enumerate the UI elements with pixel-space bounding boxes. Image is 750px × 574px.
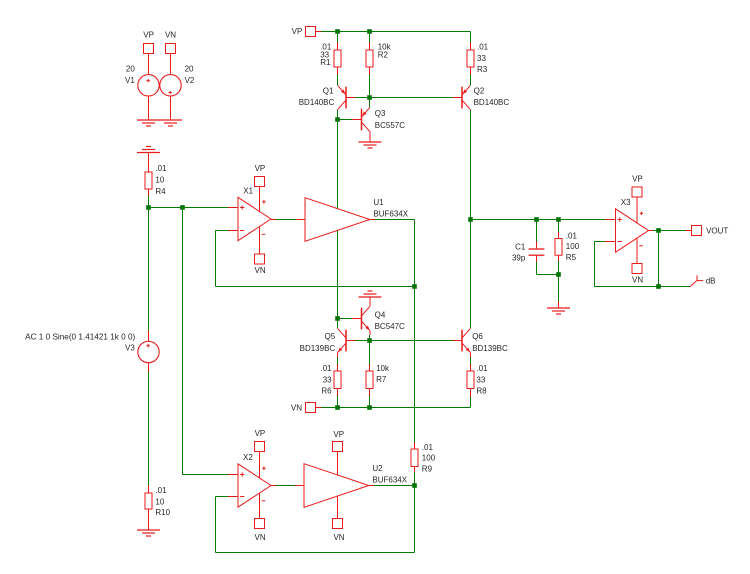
svg-text:X1: X1 (243, 187, 253, 196)
junction U1 out feedback (412, 284, 417, 289)
wire Q4 emitter to node (369, 331, 371, 335)
wire Q6 emitter green (470, 357, 472, 364)
wire R1 bottom pin (337, 67, 339, 74)
wire X2+ pin (228, 474, 238, 476)
svg-text:BUF634X: BUF634X (373, 209, 408, 218)
svg-text:.01: .01 (422, 443, 434, 452)
svg-text:VOUT: VOUT (706, 227, 728, 236)
wire R7 to VN rail (369, 396, 371, 408)
svg-text:Q4: Q4 (375, 310, 386, 319)
buffer U2 BUF634X (304, 464, 408, 508)
wire node to X2+ (183, 208, 229, 475)
wire R9 to U2 out (414, 472, 416, 486)
wire Q5 emitter to R6 (337, 353, 339, 357)
wire top rail (321, 32, 471, 43)
svg-text:BC547C: BC547C (375, 322, 405, 331)
svg-text:R6: R6 (321, 387, 332, 396)
port VN supply top-left (165, 30, 176, 53)
svg-text:dB: dB (706, 277, 716, 286)
resistor R9 .01 100 (411, 443, 436, 474)
resistor R6 .01 33 (320, 364, 341, 395)
svg-text:VP: VP (255, 164, 266, 173)
wire C1 top pin (536, 242, 538, 249)
svg-text:.01: .01 (155, 486, 167, 495)
pin U2 VP (333, 430, 345, 451)
port VP top rail (292, 27, 316, 37)
svg-text:.01: .01 (476, 364, 488, 373)
svg-text:10: 10 (155, 175, 164, 184)
svg-text:VN: VN (255, 266, 266, 275)
wire U2 VP stub (337, 452, 339, 475)
ground above R4 (137, 147, 160, 153)
wire Q3 emitter to node (369, 98, 371, 108)
wire R5 bottom pin (558, 255, 560, 261)
wire Q3 base (338, 119, 353, 121)
op-amp X1 VP pin (255, 164, 266, 186)
wire R2 top (369, 32, 371, 43)
wire R1 to Q1 (337, 74, 339, 85)
svg-text:R1: R1 (320, 58, 331, 67)
svg-text:20: 20 (126, 65, 135, 74)
wire ground to Q4 collector (369, 297, 371, 306)
svg-text:R8: R8 (476, 387, 487, 396)
wire R3 bottom pin (470, 67, 472, 74)
wire V2 to ground (170, 96, 172, 120)
svg-text:R3: R3 (477, 65, 488, 74)
wire R2 top pin (369, 42, 371, 50)
resistor R10 .01 10 (145, 486, 171, 517)
svg-text:Q2: Q2 (474, 86, 485, 95)
wire input row to X1+ (149, 207, 229, 209)
wire C1 bottom (537, 262, 559, 275)
junction C1 R5 bottom (556, 272, 561, 277)
svg-text:100: 100 (422, 454, 436, 463)
wire Q1 base to node (356, 97, 370, 99)
wire V3 bottom pin (148, 363, 150, 372)
wire V1 to ground (148, 96, 150, 120)
ground below V2 (159, 120, 182, 126)
wire U1 in pin (296, 219, 305, 221)
svg-text:R10: R10 (155, 508, 170, 517)
wire X3 out pin (649, 230, 654, 232)
transistor Q2 BD140BC (453, 85, 510, 109)
op-amp X3 triangle (616, 197, 649, 264)
svg-text:VP: VP (333, 430, 344, 439)
wire VP to V1 (148, 54, 150, 75)
wire Q3 collector to ground (369, 132, 371, 142)
wire X3 out (653, 230, 686, 232)
svg-text:10: 10 (155, 497, 164, 506)
junction output feedback (656, 284, 661, 289)
wire ground pin R5 (558, 302, 560, 309)
wire VN stub (316, 407, 322, 409)
junction right rail output (468, 217, 473, 222)
svg-text:BD140BC: BD140BC (299, 98, 335, 107)
wire V3 top pin (148, 331, 150, 342)
wire R10 top pin (148, 486, 150, 494)
svg-text:100: 100 (566, 242, 580, 251)
op-amp X2 triangle (238, 452, 271, 519)
wire U1 Vplus from Q1 (337, 120, 339, 209)
wire base node to Q2 (370, 97, 454, 99)
wire Q5 base to node (356, 340, 370, 342)
transistor Q5 BD139BC (300, 328, 356, 353)
svg-text:R5: R5 (566, 253, 577, 262)
node input junction X2 branch (180, 205, 185, 210)
svg-text:Q1: Q1 (323, 86, 334, 95)
wire X1 minus pin (228, 230, 238, 232)
wire R7 top pin (369, 364, 371, 371)
wire Q6 base pin (452, 340, 455, 342)
wire R6 to VN rail (337, 396, 339, 408)
wire X1 out pin (271, 219, 276, 221)
wire base row to Q6 (370, 340, 454, 342)
svg-text:VN: VN (255, 533, 266, 542)
port VP supply top-left (143, 30, 154, 53)
svg-text:U1: U1 (373, 198, 384, 207)
wire R6 top pin (337, 364, 339, 371)
wire Q2 base pin (452, 97, 455, 99)
op-amp X1 VN pin (255, 254, 266, 275)
wire node to V3 (148, 208, 150, 331)
svg-text:33: 33 (476, 375, 485, 384)
wire R8 top pin (470, 364, 472, 371)
wire R5 node to ground (558, 275, 560, 302)
wire U2 VN stub (337, 496, 339, 519)
wire U2 out (374, 485, 412, 487)
wire VP stub (316, 31, 322, 33)
wire out to VOUT pin (686, 230, 691, 232)
wire R8 to VN rail (470, 397, 472, 408)
voltage source V3 AC sine (25, 332, 159, 362)
wire R7 top (369, 341, 371, 365)
voltage source V2 20V (160, 65, 195, 96)
wire U2 out pin (369, 485, 374, 487)
port VOUT (692, 226, 729, 236)
svg-text:33: 33 (477, 54, 486, 63)
junction R9 U2 output (412, 483, 417, 488)
resistor R8 .01 33 (467, 364, 488, 395)
svg-text:VP: VP (632, 175, 643, 184)
junction Q1 base R2 (367, 95, 372, 100)
wire R1 top (337, 32, 339, 43)
svg-text:.01: .01 (566, 232, 578, 241)
ground below R10 (137, 530, 160, 536)
junction VN rail R6 (335, 405, 340, 410)
wire output row (471, 219, 606, 221)
svg-text:V2: V2 (185, 76, 195, 85)
svg-text:BUF634X: BUF634X (372, 475, 407, 484)
svg-text:BD139BC: BD139BC (472, 344, 508, 353)
op-amp X3 VP pin (632, 175, 643, 197)
svg-text:R7: R7 (376, 375, 387, 384)
transistor Q4 BC547C (352, 306, 405, 331)
wire C1 bottom pin (536, 256, 538, 262)
resistor R2 10k (366, 43, 392, 67)
ground above Q4 (359, 291, 382, 297)
wire VN rail (321, 407, 471, 409)
transistor Q1 BD140BC (299, 85, 356, 109)
resistor R5 .01 100 (555, 232, 580, 262)
resistor R3 .01 33 (467, 43, 489, 74)
op-amp X3 VN pin (632, 264, 643, 285)
svg-text:V1: V1 (125, 76, 135, 85)
wire Q4 base wire (338, 318, 353, 320)
wire R5 bottom (558, 261, 560, 275)
wire R3 to Q2 (470, 74, 472, 85)
wire Q3 base pin (352, 119, 362, 121)
wire out down (658, 231, 660, 287)
svg-text:X2: X2 (243, 453, 253, 462)
svg-text:C1: C1 (515, 243, 526, 252)
transistor Q3 BC557C (352, 107, 405, 131)
wire to dB probe (659, 286, 691, 288)
wire U1 out pin (370, 219, 375, 221)
svg-text:33: 33 (323, 375, 332, 384)
wire R4 node (148, 196, 150, 208)
svg-text:.01: .01 (155, 164, 167, 173)
svg-text:R9: R9 (422, 465, 433, 474)
junction Q1 collector Q3 base (335, 117, 340, 122)
voltage source V1 20V (125, 65, 159, 96)
transistor Q6 BD139BC (453, 328, 508, 353)
wire U2 in pin (295, 485, 304, 487)
node input junction left (146, 205, 151, 210)
junction X3 output (656, 228, 661, 233)
wire R9 bottom pin (414, 467, 416, 473)
svg-text:VP: VP (143, 30, 154, 39)
svg-text:BD139BC: BD139BC (300, 344, 336, 353)
resistor R1 .01 33 (320, 43, 341, 67)
svg-text:X3: X3 (621, 198, 631, 207)
wire Q5 emitter green (337, 357, 339, 364)
wire Q5 collector (337, 319, 339, 329)
wire R5 top pin (558, 232, 560, 239)
svg-text:VP: VP (255, 429, 266, 438)
pin U2 VN (333, 519, 345, 543)
svg-text:39p: 39p (512, 253, 526, 262)
wire R9 top pin (414, 442, 416, 449)
junction top rail R1 (335, 29, 340, 34)
wire ground to R4 (148, 153, 150, 173)
svg-text:V3: V3 (125, 344, 135, 353)
wire R4 to node (148, 189, 150, 196)
wire R5 top (558, 220, 560, 233)
wire V3 to R10 (148, 372, 150, 486)
voltage probe dB (690, 275, 715, 286)
wire U1 out down to R9 (414, 287, 416, 443)
svg-text:20: 20 (185, 65, 194, 74)
wire X3 feedback (595, 242, 659, 287)
wire R10 to ground (148, 509, 150, 530)
wire Q1 collector to node (337, 110, 339, 120)
svg-text:R4: R4 (155, 187, 166, 196)
svg-text:10k: 10k (376, 364, 390, 373)
wire R1 top pin (337, 42, 339, 50)
wire X2 minus pin (228, 496, 238, 498)
wire R3 top pin (470, 42, 472, 50)
svg-text:BD140BC: BD140BC (474, 98, 510, 107)
ground below Q3 (359, 142, 382, 148)
ground below V1 (137, 120, 160, 126)
resistor R4 .01 10 (145, 164, 167, 196)
wire U1 Vminus to Q5 (337, 230, 339, 318)
svg-text:Q3: Q3 (375, 109, 386, 118)
wire X1 out to U1 (276, 219, 296, 221)
port VN bottom rail (291, 403, 316, 413)
op-amp X2 VP pin (255, 429, 266, 451)
wire R7 bottom pin (369, 389, 371, 397)
svg-text:AC 1 0 Sine(0 1.41421 1k 0 0): AC 1 0 Sine(0 1.41421 1k 0 0) (25, 332, 135, 341)
wire R2 to node (369, 74, 371, 98)
wire X1+ pin (228, 207, 238, 209)
svg-text:VN: VN (291, 404, 302, 413)
wire X3 minus pin (605, 241, 616, 243)
junction C1 top (534, 217, 539, 222)
wire rail node to Q6 (470, 220, 472, 329)
svg-text:Q5: Q5 (325, 332, 336, 341)
wire R8 bottom pin (470, 389, 472, 398)
junction VN rail R7 (367, 405, 372, 410)
wire X2 out to U2 (276, 485, 295, 487)
svg-text:VN: VN (165, 30, 176, 39)
op-amp X1 triangle (238, 187, 271, 255)
ground below R5 (547, 308, 570, 314)
wire R2 bottom pin (369, 67, 371, 74)
wire C1 top (536, 220, 538, 242)
svg-text:VN: VN (333, 533, 344, 542)
svg-text:U2: U2 (372, 464, 383, 473)
wire Q4 emitter green (369, 335, 371, 341)
junction top rail R2 (367, 29, 372, 34)
junction base row R7 (367, 338, 372, 343)
svg-text:.01: .01 (320, 364, 332, 373)
wire VN to V2 (170, 54, 172, 75)
svg-text:R2: R2 (378, 50, 389, 59)
wire Q6 emitter to R8 (470, 353, 472, 357)
wire R6 bottom pin (337, 389, 339, 397)
buffer U1 BUF634X (305, 198, 409, 242)
svg-text:Q6: Q6 (472, 332, 483, 341)
wire rail Q2 to node (470, 110, 472, 220)
op-amp X2 VN pin (255, 519, 266, 543)
junction R5 top (556, 217, 561, 222)
resistor R7 10k (366, 364, 390, 389)
svg-text:.01: .01 (477, 43, 489, 52)
svg-text:VP: VP (292, 27, 303, 36)
wire U1 out (375, 220, 415, 287)
wire X2 feedback (216, 486, 415, 553)
wire X3 plus pin (605, 219, 616, 221)
capacitor C1 39p (512, 243, 544, 263)
wire X2 out pin (271, 485, 276, 487)
svg-text:BC557C: BC557C (375, 121, 405, 130)
wire X1 feedback (216, 231, 415, 287)
junction U1 Vminus Q4 base (335, 316, 340, 321)
svg-text:VN: VN (632, 276, 643, 285)
